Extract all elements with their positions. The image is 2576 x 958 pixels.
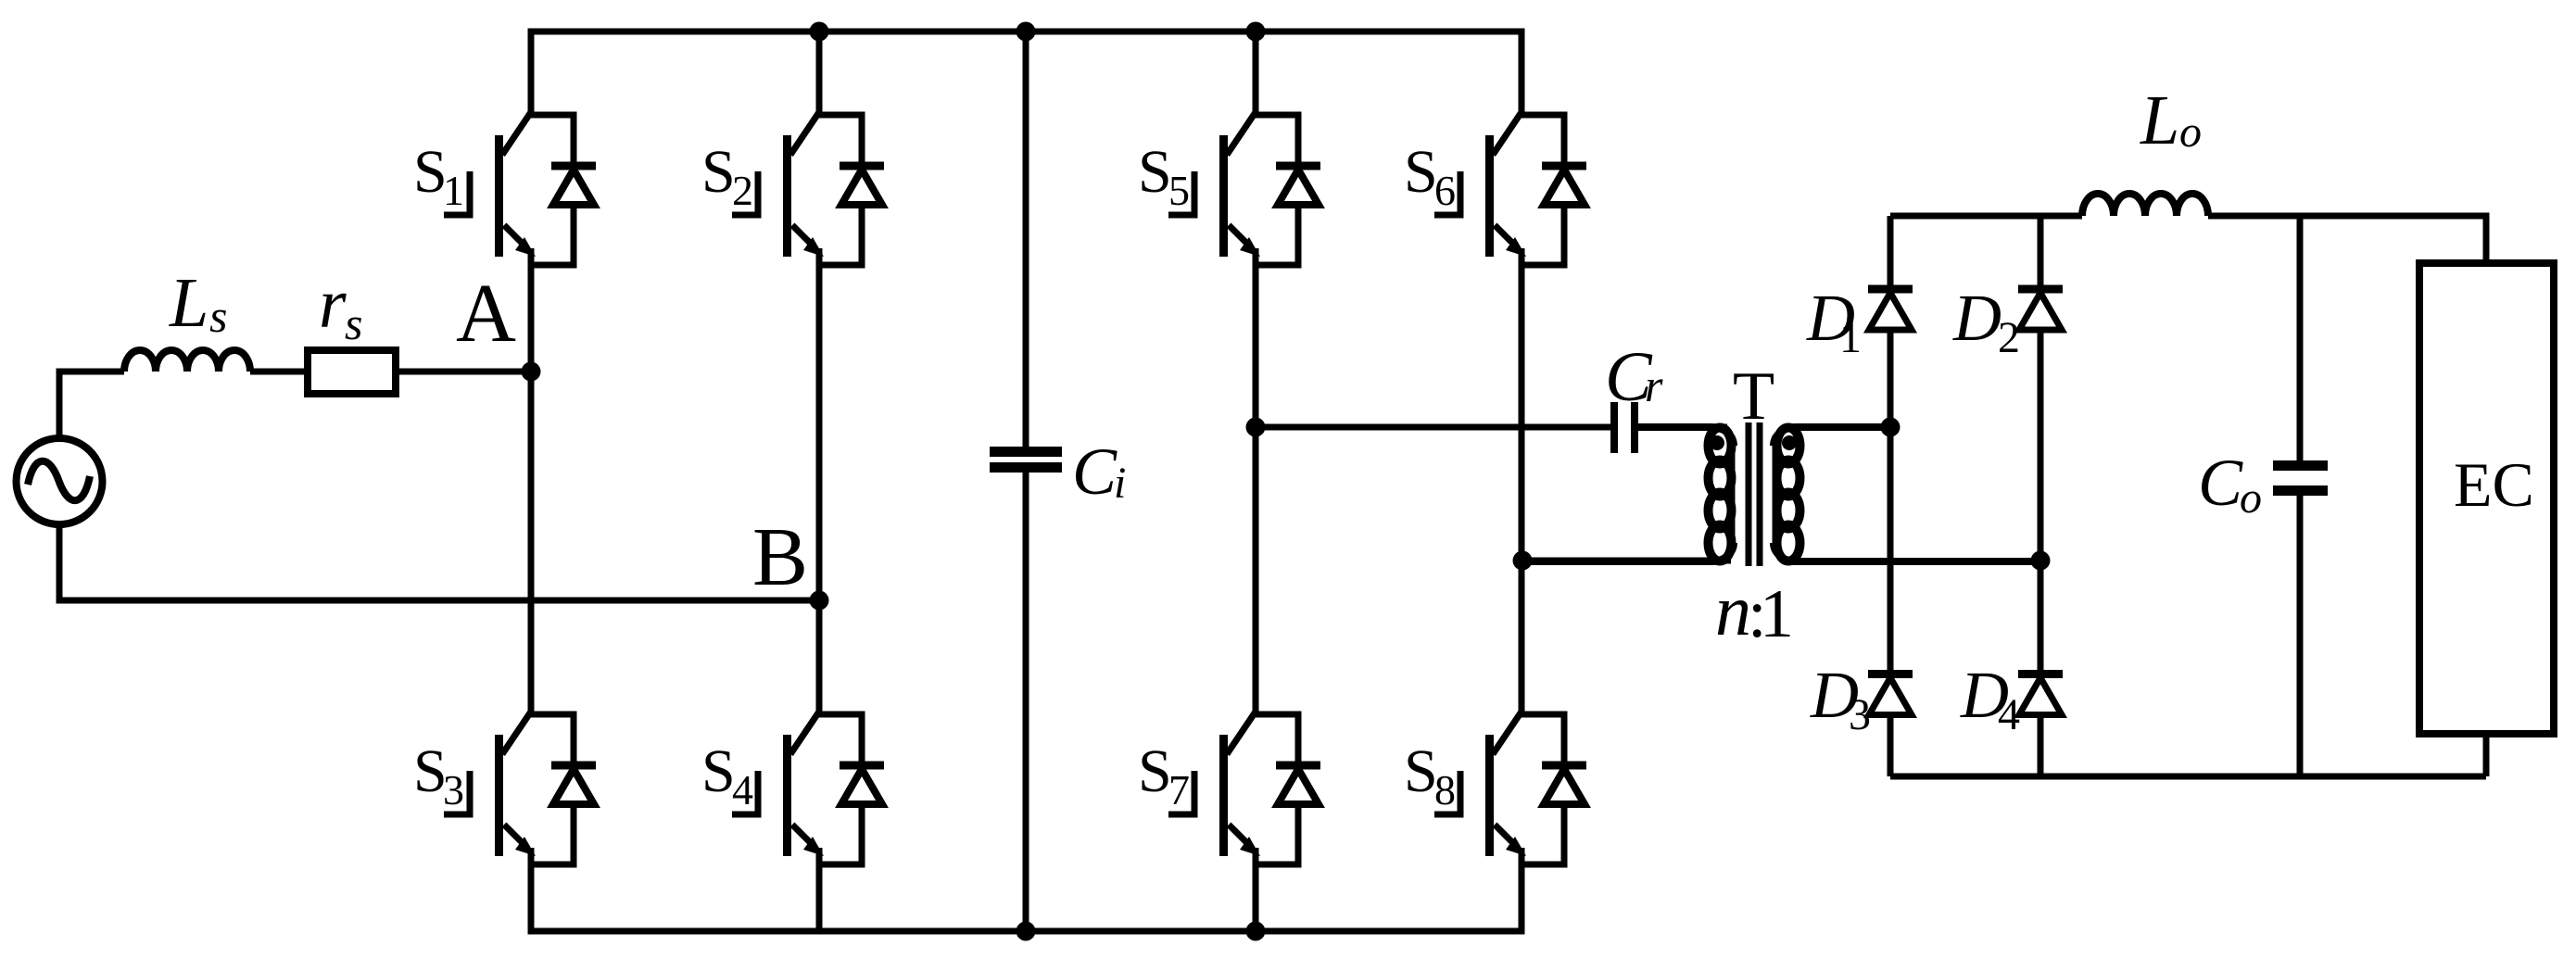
svg-text:B: B xyxy=(752,511,808,603)
svg-text:r: r xyxy=(1645,359,1663,411)
svg-text:3: 3 xyxy=(443,766,464,813)
svg-text:D: D xyxy=(1952,281,2001,355)
svg-text:EC: EC xyxy=(2454,449,2534,520)
svg-text:r: r xyxy=(319,265,347,343)
svg-text:7: 7 xyxy=(1168,766,1190,813)
svg-text:o: o xyxy=(2179,107,2202,157)
svg-text:L: L xyxy=(169,264,208,342)
svg-text:S: S xyxy=(1138,138,1172,206)
svg-text:1: 1 xyxy=(1760,576,1794,652)
svg-text:2: 2 xyxy=(1998,313,2020,362)
svg-text:3: 3 xyxy=(1849,690,1871,739)
svg-text:A: A xyxy=(456,268,516,359)
svg-text:n: n xyxy=(1715,570,1751,650)
svg-text:4: 4 xyxy=(732,766,753,813)
svg-text:2: 2 xyxy=(732,167,753,214)
svg-text:S: S xyxy=(1404,138,1438,206)
svg-text:i: i xyxy=(1114,459,1126,508)
svg-text:S: S xyxy=(701,737,736,805)
svg-text:6: 6 xyxy=(1434,167,1456,214)
svg-text:C: C xyxy=(2198,446,2243,520)
svg-text:1: 1 xyxy=(1839,313,1862,362)
svg-text:C: C xyxy=(1072,435,1118,509)
svg-text:S: S xyxy=(701,138,736,206)
svg-text:5: 5 xyxy=(1168,167,1190,214)
svg-text:L: L xyxy=(2140,82,2179,159)
svg-text:8: 8 xyxy=(1434,766,1456,813)
svg-text:S: S xyxy=(1404,737,1438,805)
svg-text:s: s xyxy=(209,290,227,342)
svg-text:1: 1 xyxy=(443,167,464,214)
svg-text:s: s xyxy=(345,297,362,349)
svg-text:S: S xyxy=(1138,737,1172,805)
svg-text:T: T xyxy=(1733,359,1774,435)
svg-text:4: 4 xyxy=(1998,690,2020,739)
svg-text:o: o xyxy=(2240,473,2262,523)
